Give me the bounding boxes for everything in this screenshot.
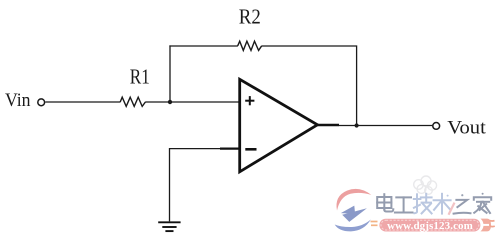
watermark logo lightning — [341, 206, 355, 214]
watermark — [335, 176, 495, 232]
watermark logo bottom crescent — [335, 219, 371, 231]
plus input marking — [245, 96, 254, 105]
svg-text:R1: R1 — [130, 65, 150, 89]
ground — [158, 222, 180, 231]
wire top right — [262, 46, 357, 126]
wire R1 to op-amp — [145, 101, 239, 103]
char zhi (of) — [454, 194, 471, 214]
svg-text:Vin: Vin — [5, 90, 31, 111]
wire Vin to R1 — [45, 101, 120, 103]
svg-text:Vout: Vout — [447, 117, 486, 138]
resistor R2 — [238, 41, 262, 50]
op-amp U1 — [240, 79, 318, 172]
watermark logo top crescent — [336, 189, 371, 211]
char jia (home) — [474, 193, 491, 213]
wire minus input thin — [170, 149, 240, 222]
wire output to Vout — [339, 125, 432, 127]
terminal Vout — [433, 123, 440, 130]
junction output node — [355, 123, 359, 127]
decorative pink slash — [449, 204, 454, 214]
watermark swirl ticks right — [481, 219, 492, 232]
wire minus input thick stub — [220, 147, 239, 149]
wire output thick stub — [317, 124, 340, 126]
wire top left — [169, 45, 238, 47]
char dian (electric) — [377, 194, 393, 211]
minus input marking — [245, 148, 256, 151]
svg-text:R2: R2 — [239, 5, 261, 29]
char shu (technique) — [434, 194, 451, 214]
char gong (work) — [395, 197, 413, 212]
watermark chinese title — [377, 193, 491, 214]
watermark flower decoration — [414, 176, 437, 194]
wire junction up — [169, 45, 171, 102]
resistor R1 — [120, 97, 145, 106]
char ji (skill) — [414, 194, 432, 214]
junction node A — [168, 100, 172, 104]
watermark swirl ticks left — [371, 222, 378, 226]
watermark url band — [379, 219, 480, 232]
svg-text:www.dgjs123.com: www.dgjs123.com — [387, 220, 473, 232]
terminal Vin — [38, 99, 45, 106]
